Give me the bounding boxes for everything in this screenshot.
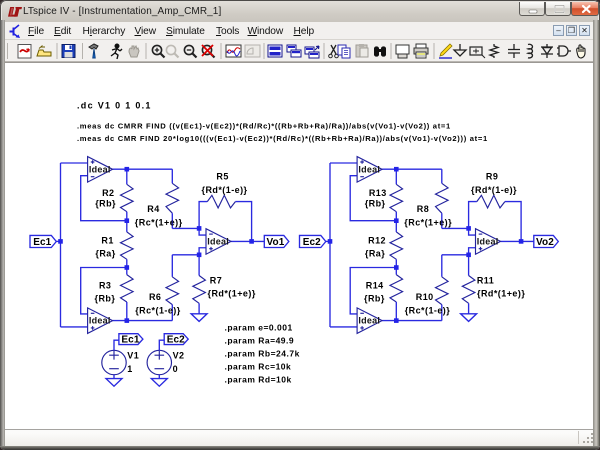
resistor R3 [126, 268, 128, 275]
ground below V2 [151, 379, 167, 387]
svg-text:{Rc*(1+e)}: {Rc*(1+e)} [404, 217, 452, 227]
junction lower buffer output [394, 318, 399, 323]
junction noninverting node [197, 253, 202, 258]
svg-text:{Rd*(1-e)}: {Rd*(1-e)} [471, 185, 517, 195]
resistor R8 [441, 169, 443, 183]
svg-text:.dc V1 0 1 0.1: .dc V1 0 1 0.1 [77, 100, 152, 110]
wire Ec2 input to bus [326, 240, 330, 242]
wire op-amp U1 output node [113, 168, 173, 170]
svg-text:{Rd*(1+e)}: {Rd*(1+e)} [208, 288, 256, 298]
svg-text:.param e=0.001: .param e=0.001 [225, 323, 293, 333]
wire op-amp U3 output node [113, 320, 173, 322]
svg-text:Vo1: Vo1 [267, 237, 285, 248]
wire op-amp U4 feedback to R13 bottom node [350, 176, 396, 221]
junction feedback node [394, 218, 399, 223]
wire noninverting node into op-amp U2 [199, 248, 206, 255]
resistor R7 [198, 255, 200, 276]
svg-text:.meas dc CMR FIND 20*log10(((v: .meas dc CMR FIND 20*log10(((v(Ec1)-v(Ec… [77, 134, 488, 143]
op-amp U3 (Ideal buffer bottom) [88, 308, 113, 334]
junction mid node [125, 265, 130, 270]
svg-text:1: 1 [127, 364, 132, 374]
resistor R12 [395, 221, 397, 232]
junction noninverting node [466, 253, 471, 258]
svg-text:R5: R5 [216, 171, 228, 181]
voltage source V1 [102, 350, 126, 374]
wire R6 top to noninverting node [172, 254, 199, 256]
svg-text:V1: V1 [127, 350, 139, 360]
svg-text:Ec2: Ec2 [303, 237, 321, 248]
wire bus to op-amp U6 noninverting input [330, 326, 357, 328]
svg-text:0: 0 [173, 364, 178, 374]
svg-text:{Rc*(1-e)}: {Rc*(1-e)} [135, 306, 181, 316]
op-amp U5 (Ideal difference amp) [476, 229, 501, 255]
svg-text:{Rb}: {Rb} [365, 199, 386, 209]
wire V2 bottom to ground [158, 375, 160, 379]
wire V2 top to Ec2 net flag [159, 340, 164, 350]
wire input bus vertical [60, 163, 62, 327]
svg-text:R11: R11 [477, 275, 494, 285]
resize grip [583, 433, 595, 445]
junction output node [249, 239, 254, 244]
svg-text:Ideal: Ideal [358, 316, 380, 326]
svg-text:R3: R3 [99, 280, 111, 290]
wire R5 right lead down to output [235, 202, 251, 242]
junction feedback node [125, 218, 130, 223]
wire R9 right lead down to output [505, 202, 521, 242]
wire op-amp U6 feedback to R14 top node [350, 268, 396, 314]
resistor R4 [171, 169, 173, 183]
node Vo2 output flag [534, 235, 559, 247]
wire feedback loop around R5 [199, 202, 207, 229]
junction at buffer output [125, 167, 130, 172]
svg-text:Vo2: Vo2 [536, 237, 554, 248]
LT logo [7, 6, 23, 18]
svg-text:R1: R1 [101, 235, 113, 245]
svg-text:R6: R6 [149, 292, 161, 302]
junction lower buffer output [125, 318, 130, 323]
svg-text:Ec2: Ec2 [167, 335, 185, 346]
wire Ec1 input to bus [56, 240, 60, 242]
svg-text:Ec1: Ec1 [121, 335, 139, 346]
svg-text:Ec1: Ec1 [33, 237, 51, 248]
svg-text:{Ra}: {Ra} [95, 248, 115, 258]
node Ec1 input flag [30, 235, 56, 247]
svg-text:R2: R2 [102, 188, 114, 198]
svg-text:R10: R10 [416, 292, 434, 302]
node Vo1 output flag [264, 235, 289, 247]
svg-text:.meas dc CMRR FIND ((v(Ec1)-v(: .meas dc CMRR FIND ((v(Ec1)-v(Ec2))*(Rd/… [77, 122, 451, 131]
wire op-amp U1 feedback to R2 bottom node [81, 176, 127, 221]
op-amp U6 (Ideal buffer bottom) [357, 308, 382, 334]
resistor R11 [468, 255, 470, 276]
op-amp U4 (Ideal buffer top) [357, 157, 382, 183]
svg-text:{Rd*(1+e)}: {Rd*(1+e)} [477, 288, 525, 298]
svg-text:R13: R13 [369, 188, 387, 198]
svg-text:{Rd*(1-e)}: {Rd*(1-e)} [202, 185, 248, 195]
svg-text:R8: R8 [417, 204, 429, 214]
wire bus to op-amp U4 noninverting input [330, 162, 357, 164]
junction at buffer output [394, 167, 399, 172]
wire R8 bottom to inverting node [442, 227, 469, 229]
ground below R11 [461, 314, 477, 322]
voltage source V2 [147, 350, 171, 374]
wire bus to op-amp U3 noninverting input [61, 326, 88, 328]
resistor R14 [395, 268, 397, 275]
op-amp U1 (Ideal buffer top) [88, 157, 113, 183]
node Ec2 flag at V2 [164, 334, 188, 345]
wire input bus vertical [329, 163, 331, 327]
window buttons [519, 2, 545, 16]
wire op-amp U6 output node [382, 320, 442, 322]
resistor R1 [126, 221, 128, 232]
svg-text:R4: R4 [147, 204, 159, 214]
wire op-amp U2 output to Vo1 flag [231, 240, 264, 242]
svg-text:V2: V2 [173, 350, 185, 360]
junction at input bus [328, 239, 333, 244]
svg-text:{Rb}: {Rb} [95, 293, 116, 303]
svg-text:R14: R14 [366, 280, 384, 290]
junction inverting node [466, 226, 471, 231]
svg-text:{Ra}: {Ra} [365, 248, 385, 258]
resistor R6 [171, 255, 173, 277]
junction inverting node [197, 226, 202, 231]
wire R4 bottom to inverting node [172, 227, 199, 229]
junction output node [519, 239, 524, 244]
svg-text:.param Ra=49.9: .param Ra=49.9 [225, 336, 295, 346]
wire feedback loop around R9 [469, 202, 477, 229]
svg-text:Ideal: Ideal [358, 164, 380, 174]
wire op-amp U3 feedback to R3 top node [81, 268, 127, 314]
wire V1 bottom to ground [113, 375, 115, 379]
svg-text:{Rb}: {Rb} [95, 199, 116, 209]
wire V1 top to Ec1 net flag [114, 340, 119, 350]
svg-text:Ideal: Ideal [89, 316, 111, 326]
svg-text:R7: R7 [210, 275, 222, 285]
svg-text:{Rb}: {Rb} [364, 293, 385, 303]
junction mid node [394, 265, 399, 270]
MDI child window buttons [553, 25, 564, 36]
wire bus to op-amp U1 noninverting input [61, 162, 88, 164]
wire op-amp U5 output to Vo2 flag [501, 240, 534, 242]
svg-text:Ideal: Ideal [207, 237, 229, 247]
wire R10 top to noninverting node [442, 254, 469, 256]
svg-text:Ideal: Ideal [89, 164, 111, 174]
wire inverting node into op-amp U2 [199, 228, 206, 235]
svg-text:.param Rb=24.7k: .param Rb=24.7k [225, 349, 300, 359]
op-amp U2 (Ideal difference amp) [206, 229, 231, 255]
resistor R5 (feedback) [207, 195, 235, 208]
svg-text:R12: R12 [368, 235, 386, 245]
wire noninverting node into op-amp U5 [469, 248, 476, 255]
svg-text:{Rc*(1-e)}: {Rc*(1-e)} [405, 306, 451, 316]
resistor R10 [441, 255, 443, 277]
resistor R13 [395, 169, 397, 184]
resistor R9 (feedback) [477, 195, 505, 208]
node Ec1 flag at V1 [119, 334, 143, 345]
ground below R7 [191, 314, 207, 322]
svg-text:.param Rc=10k: .param Rc=10k [225, 362, 292, 372]
wire inverting node into op-amp U5 [469, 228, 476, 235]
ground below V1 [106, 379, 122, 387]
app icon [9, 24, 23, 39]
svg-text:.param Rd=10k: .param Rd=10k [225, 375, 292, 385]
svg-text:{Rc*(1+e)}: {Rc*(1+e)} [135, 217, 183, 227]
schematic client area [5, 62, 593, 429]
resistor R2 [126, 169, 128, 184]
junction at input bus [58, 239, 63, 244]
wire op-amp U4 output node [382, 168, 442, 170]
svg-text:R9: R9 [486, 171, 498, 181]
svg-text:Ideal: Ideal [477, 237, 499, 247]
node Ec2 input flag [300, 235, 326, 247]
